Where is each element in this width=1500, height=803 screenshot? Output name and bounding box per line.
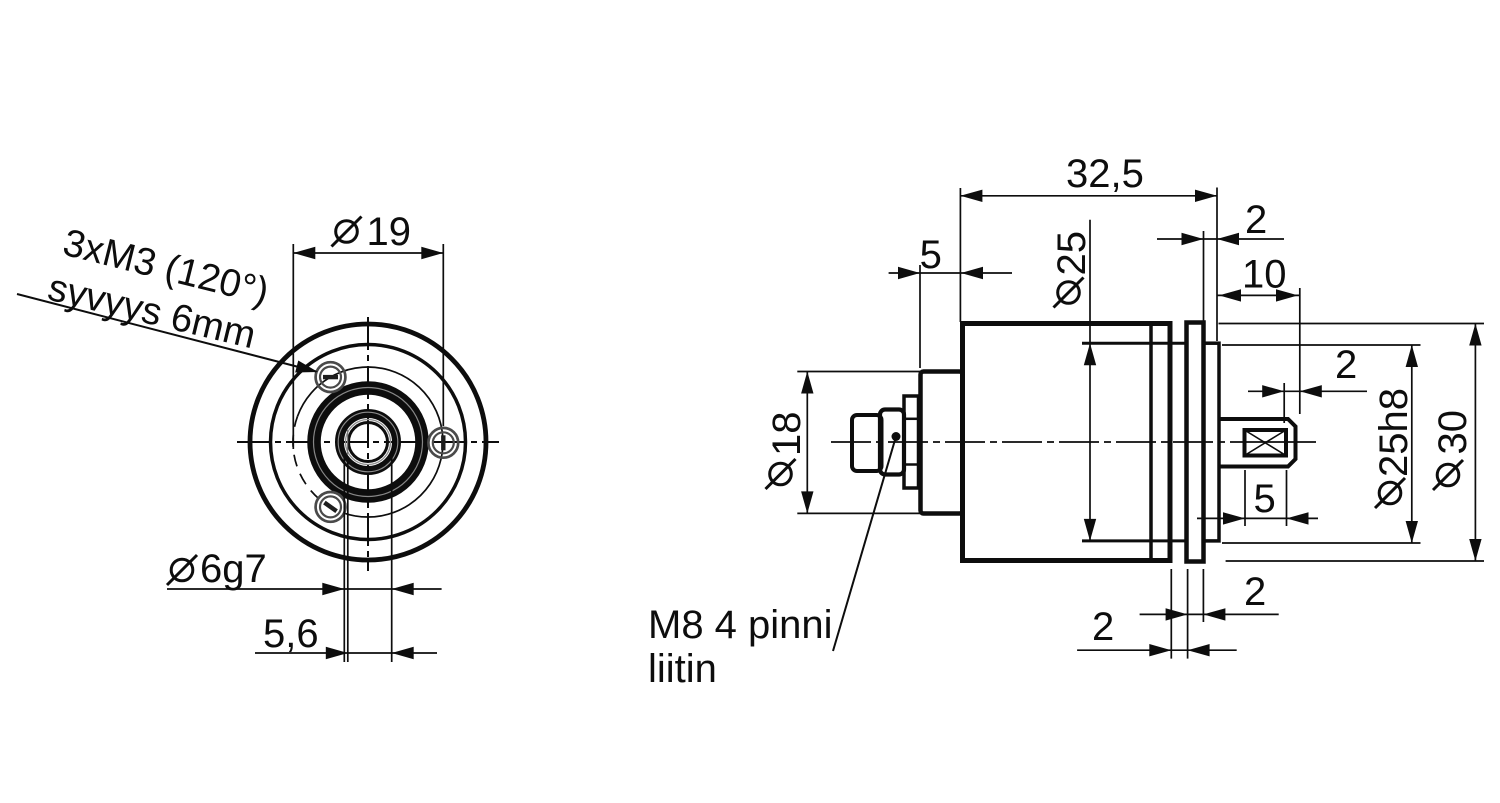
screw M3 top-left [316,362,346,392]
svg-text:5,6: 5,6 [263,612,319,656]
svg-text:5: 5 [1254,477,1276,521]
dimension 5,6 line [255,652,437,654]
pilot circle D25 [271,345,466,540]
dimension D19 line [293,252,443,254]
leader dot M8 connector [892,432,901,441]
key [1245,430,1287,456]
dimension D19 extension lines [292,244,294,449]
dimension 5,6 extension line (flat) [347,456,349,662]
label D25 rotated [1050,231,1094,276]
dimension D18 line [806,372,808,514]
svg-text:25: 25 [1050,231,1094,276]
leader line M8 connector [833,437,896,652]
svg-text:2: 2 [1092,605,1114,649]
label D6g7 [167,555,197,585]
dimension 2 (pilot) extension line [1203,231,1205,321]
dimension D25h8 line [1411,345,1413,543]
mounting plate D18 [921,372,963,514]
dimension 2 (groove) line [1077,649,1237,651]
dimension D6g7 line [167,588,442,590]
neck D25 top edge / D25 extension [1082,342,1187,345]
connector body [880,410,904,475]
label D25h8 rotated [1372,388,1416,477]
screw M3 bottom-left [316,492,346,522]
shaft bore circle [349,423,388,462]
dimension 2 (key to end) extension line [1283,383,1285,423]
shaft circle D6g7 [346,420,391,465]
dimension D25h8 extension lines [1222,344,1421,346]
dimension 32,5 line [960,195,1217,197]
bolt circle D19 dashed arc [293,416,355,516]
dimension 2 (groove) extension lines [1170,569,1172,659]
side view main centerline [831,441,1233,443]
svg-text:19: 19 [367,210,412,254]
screw M3 right [428,428,458,458]
svg-text:25h8: 25h8 [1372,388,1416,477]
label D18 rotated [765,412,809,457]
dimension 5 (plate) extension line [919,265,921,368]
label D30 rotated [1431,410,1475,455]
dimension 2 (pilot) line [1157,238,1284,240]
dimension 2 (key to end) line [1248,390,1367,392]
neck D25 bottom edge / D25 extension [1082,539,1187,542]
svg-text:6g7: 6g7 [200,547,267,591]
svg-text:32,5: 32,5 [1066,152,1144,196]
pilot collar D25h8 [1204,343,1220,541]
svg-text:2: 2 [1244,570,1266,614]
connector nut [904,396,919,488]
dimension D30 line [1474,324,1476,562]
dimension 2 (flange disc) line [1140,613,1279,615]
dimension D25 line [1089,220,1091,541]
body groove line [1149,324,1153,561]
dimension 5 (plate) line [889,272,1012,274]
svg-text:30: 30 [1431,410,1475,455]
dimension 32,5 extension lines [959,188,961,322]
dimension 10 (shaft) extension line [1299,288,1301,414]
dimension D18 extension lines [797,371,920,373]
svg-text:M8 4 pinni: M8 4 pinni [648,603,833,647]
front view vertical centerline [367,317,369,571]
svg-text:5: 5 [920,233,942,277]
svg-text:liitin: liitin [648,647,717,691]
shaft centerline [1233,441,1316,443]
dimension 5 (key) extension lines [1244,470,1246,526]
label D19 [332,217,362,247]
connector tip [852,415,882,471]
O-ring seal ring [314,388,422,496]
dimension 10 line [1217,294,1300,296]
leader line 3xM3 [17,294,316,372]
front view horizontal centerline [237,441,499,443]
dimension 5 (key) line [1197,517,1318,519]
dimension D6g7 extension lines [343,456,345,662]
shaft D6 [1219,419,1296,467]
dimension D30 extension lines [1219,323,1485,325]
svg-text:18: 18 [765,412,809,457]
flange outer circle D30 [250,324,486,560]
svg-text:2: 2 [1335,343,1357,387]
bolt circle D19 solid arc [298,367,443,517]
svg-text:10: 10 [1242,253,1287,297]
clamping flange disc [1187,323,1204,562]
encoder body [963,324,1171,561]
bearing ring [340,414,397,471]
svg-text:2: 2 [1245,198,1267,242]
shaft flat chord [347,430,349,455]
